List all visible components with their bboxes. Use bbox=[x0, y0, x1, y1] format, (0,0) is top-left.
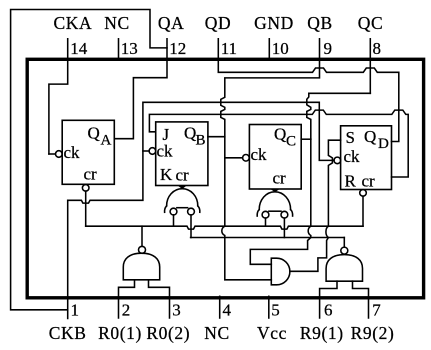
AND gate (QB-QC to S of FF D) bbox=[271, 258, 290, 285]
gate below FF C left input bubble bbox=[262, 211, 269, 218]
svg-text:R0(1): R0(1) bbox=[98, 323, 142, 343]
pin numbers top bbox=[70, 39, 381, 58]
svg-text:R9(2): R9(2) bbox=[351, 323, 395, 343]
pin labels bottom bbox=[49, 323, 395, 343]
svg-text:Q: Q bbox=[364, 127, 376, 146]
wire QD-bar feedback to J of FF B with hops bbox=[149, 110, 408, 177]
svg-text:ck: ck bbox=[344, 147, 361, 166]
gate below FF C right input bubble bbox=[281, 211, 288, 218]
pin 11 stub QD and wire QD with hops bbox=[218, 39, 398, 142]
svg-text:CKB: CKB bbox=[49, 323, 87, 343]
svg-text:8: 8 bbox=[373, 39, 382, 58]
svg-text:C: C bbox=[286, 134, 296, 150]
flip-flop A clock bubble bbox=[56, 151, 63, 158]
wire QB tap to FF C clock bubble bbox=[225, 157, 243, 159]
wire R9 rail bbox=[191, 237, 345, 239]
flip-flop D clock bubble bbox=[334, 157, 341, 164]
wire CKB from pin 1 to FF B and FF D clocks bbox=[68, 102, 334, 318]
wire R9 NAND output to rail bbox=[343, 238, 345, 248]
pin 5 stub Vcc bbox=[268, 296, 270, 318]
NAND R9 output bubble bbox=[341, 247, 348, 254]
gate below FF B left input bubble bbox=[170, 208, 177, 215]
svg-text:CKA: CKA bbox=[54, 13, 93, 33]
gate AND (inverted inputs) below FF B bbox=[167, 189, 198, 206]
svg-text:S: S bbox=[346, 128, 355, 147]
svg-text:Q: Q bbox=[184, 124, 196, 143]
flip-flop C labels bbox=[251, 125, 297, 188]
pin 13 stub NC bbox=[118, 39, 120, 59]
flip-flop A box bbox=[62, 120, 114, 184]
flip-flop D box bbox=[341, 126, 392, 190]
svg-text:3: 3 bbox=[172, 301, 181, 320]
svg-text:cr: cr bbox=[273, 169, 287, 188]
svg-text:cr: cr bbox=[84, 165, 98, 184]
svg-text:Q: Q bbox=[274, 125, 286, 144]
pin 12 stub QA bbox=[114, 39, 167, 139]
svg-text:B: B bbox=[196, 133, 206, 149]
wire FF C gate left input to R0 rail bbox=[265, 218, 267, 226]
svg-text:6: 6 bbox=[324, 301, 333, 320]
NAND R9 left leg to pin 6 bbox=[320, 281, 337, 318]
wire FF B gate left input to R0 rail bbox=[173, 215, 175, 226]
svg-text:5: 5 bbox=[271, 301, 280, 320]
NAND R9 right leg to pin 7 bbox=[353, 281, 369, 318]
svg-text:QA: QA bbox=[158, 13, 184, 33]
svg-text:R: R bbox=[345, 172, 357, 191]
wire FF C gate right input to R9 rail with hop bbox=[283, 218, 285, 238]
pin labels top bbox=[54, 13, 384, 33]
NAND R0 right leg to pin 3 bbox=[149, 280, 170, 318]
svg-text:D: D bbox=[378, 136, 389, 152]
flip-flop A clear bubble bbox=[82, 185, 89, 192]
svg-text:NC: NC bbox=[104, 13, 130, 33]
svg-text:12: 12 bbox=[169, 39, 186, 58]
flip-flop C box bbox=[249, 125, 301, 190]
gate AND (inverted inputs) below FF C bbox=[259, 192, 290, 210]
pin 10 stub GND bbox=[268, 39, 270, 59]
svg-text:R9(1): R9(1) bbox=[300, 323, 344, 343]
wire QB output of FF B bbox=[208, 136, 225, 138]
NAND gate R0 (pins 2,3) bbox=[123, 253, 159, 280]
svg-text:ck: ck bbox=[157, 142, 174, 161]
svg-text:QC: QC bbox=[358, 13, 384, 33]
NAND R0 output bubble bbox=[139, 246, 146, 253]
flip-flop C clock bubble bbox=[243, 155, 250, 162]
pin 8 stub QC bbox=[369, 39, 371, 94]
gate below FF C apex wedge bbox=[271, 190, 279, 193]
svg-text:QD: QD bbox=[205, 13, 231, 33]
wire QC output to riser bbox=[301, 138, 311, 140]
svg-text:13: 13 bbox=[121, 39, 138, 58]
wire R0 NAND output to rail bbox=[141, 226, 143, 246]
wire QA external feedback loop (pin 12 to pin 1) bbox=[11, 10, 167, 310]
svg-text:14: 14 bbox=[70, 39, 88, 58]
wire FF B gate right input to R9 rail with hop bbox=[190, 215, 192, 238]
wire AND output to S of FF D with hops bbox=[290, 140, 341, 271]
svg-text:NC: NC bbox=[204, 323, 230, 343]
flip-flop B box bbox=[156, 122, 208, 186]
svg-text:4: 4 bbox=[223, 301, 232, 320]
svg-text:1: 1 bbox=[71, 301, 80, 320]
wire FF D R input to R0 rail bbox=[362, 196, 364, 226]
gate below FF B apex wedge bbox=[178, 186, 186, 189]
svg-text:9: 9 bbox=[324, 39, 333, 58]
svg-text:ck: ck bbox=[64, 143, 81, 162]
flip-flop B labels bbox=[157, 124, 206, 185]
wire CKB tap to FF B clock bubble bbox=[143, 150, 149, 152]
svg-text:2: 2 bbox=[122, 301, 131, 320]
svg-text:10: 10 bbox=[272, 39, 289, 58]
wire FF A clear to R0 rail bbox=[85, 191, 87, 226]
flip-flop B clock bubble bbox=[149, 148, 156, 155]
pin 9 stub QB and wire QB vertical with hops bbox=[221, 39, 320, 280]
flip-flop D R clear bubble bbox=[360, 190, 367, 197]
flip-flop D labels bbox=[344, 127, 390, 191]
svg-text:cr: cr bbox=[362, 172, 376, 191]
svg-text:QB: QB bbox=[307, 13, 333, 33]
svg-text:cr: cr bbox=[176, 166, 190, 185]
svg-text:7: 7 bbox=[372, 301, 381, 320]
svg-text:GND: GND bbox=[254, 13, 294, 33]
pin numbers bottom bbox=[71, 301, 382, 320]
svg-text:K: K bbox=[160, 165, 173, 184]
svg-text:Vcc: Vcc bbox=[257, 323, 287, 343]
wire QC riser up to pin 8 with hops bbox=[307, 93, 371, 139]
svg-text:R0(2): R0(2) bbox=[146, 323, 190, 343]
wire CKA to FF A clock bbox=[49, 153, 56, 155]
wire QC down to AND gate with hops bbox=[250, 139, 310, 264]
pin 14 stub CKA bbox=[49, 39, 68, 154]
gate below FF B right input bubble bbox=[188, 208, 195, 215]
NAND R0 left leg to pin 2 bbox=[119, 280, 135, 318]
svg-text:ck: ck bbox=[251, 145, 268, 164]
wire R0 reset rail bbox=[86, 226, 363, 229]
svg-text:A: A bbox=[101, 133, 112, 149]
NAND gate R9 (pins 6,7) bbox=[326, 255, 362, 282]
svg-text:Q: Q bbox=[88, 124, 100, 143]
pin 4 stub NC bbox=[219, 296, 221, 318]
svg-text:11: 11 bbox=[221, 39, 237, 58]
flip-flop A labels bbox=[64, 124, 112, 184]
IC body outline bbox=[27, 59, 423, 297]
